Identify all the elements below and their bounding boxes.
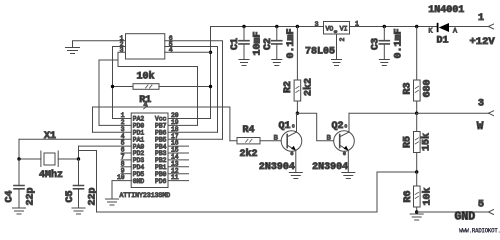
svg-text:1N4001: 1N4001 bbox=[428, 5, 464, 16]
wire U1 pin11 stub bbox=[168, 180, 189, 182]
ground (R6) bbox=[410, 214, 423, 220]
svg-text:PD6: PD6 bbox=[155, 178, 167, 185]
wire U1 pin17 bbox=[168, 138, 223, 140]
wire U1 pin14 stub bbox=[168, 159, 189, 161]
svg-text:1: 1 bbox=[355, 21, 359, 28]
wire J1 pin4 bbox=[165, 51, 211, 53]
svg-text:c: c bbox=[292, 124, 295, 130]
wire U2 pin2 to ground bbox=[336, 34, 338, 59]
wire top 5V rail bbox=[211, 27, 489, 119]
svg-text:GND: GND bbox=[133, 178, 145, 185]
svg-text:R2: R2 bbox=[283, 81, 294, 93]
wire J1 pin3 to U1 PB7 bbox=[118, 67, 198, 126]
svg-text:78L05: 78L05 bbox=[305, 47, 335, 58]
capacitor C1 10mF bbox=[239, 27, 249, 60]
wire U1 pin8 stub bbox=[121, 166, 131, 168]
svg-text:Q1: Q1 bbox=[278, 121, 290, 132]
svg-text:VI: VI bbox=[340, 26, 348, 33]
ground (C3) bbox=[379, 60, 389, 66]
node R2/Q1 collector junction bbox=[296, 112, 299, 115]
svg-text:10k: 10k bbox=[422, 187, 434, 205]
wire U1 pin9 stub bbox=[121, 173, 131, 175]
pin numbers U1 left bbox=[117, 112, 125, 181]
wire U1 pin15 stub bbox=[168, 152, 189, 154]
wire U1 pin12 stub bbox=[168, 173, 189, 175]
net label 4 bbox=[143, 102, 147, 110]
svg-text:22p: 22p bbox=[26, 187, 37, 205]
wire U1 pin3 stub bbox=[93, 131, 132, 133]
ground (C2) bbox=[272, 60, 282, 66]
svg-text:G: G bbox=[333, 30, 339, 33]
wire U1 pin4 to crystal left bbox=[19, 138, 131, 140]
wire U1 pin18 bbox=[168, 131, 218, 133]
wire U1 pin19 bbox=[168, 124, 198, 126]
svg-text:WWW.RADIOKOT.RU: WWW.RADIOKOT.RU bbox=[459, 228, 500, 235]
svg-text:R6: R6 bbox=[403, 190, 414, 202]
wire U1 pin5 to crystal right bbox=[79, 145, 132, 147]
diode D1 1N4001 bbox=[437, 23, 449, 32]
ground (Q2 emitter) bbox=[342, 173, 355, 179]
resistor R6 10k bbox=[414, 172, 421, 212]
svg-text:C2: C2 bbox=[263, 38, 274, 50]
svg-text:C3: C3 bbox=[371, 38, 382, 50]
svg-text:1: 1 bbox=[478, 13, 484, 24]
svg-text:B: B bbox=[327, 135, 331, 142]
IC U1 ATTINY2313SMD bbox=[131, 113, 168, 188]
wire J1 pin6 to U1 PB5 bbox=[165, 41, 223, 140]
svg-text:3: 3 bbox=[315, 21, 319, 28]
ground (U2) bbox=[332, 60, 342, 66]
svg-text:R3: R3 bbox=[403, 82, 414, 94]
svg-text:3: 3 bbox=[478, 99, 484, 110]
svg-text:e: e bbox=[343, 151, 346, 157]
svg-text:R5: R5 bbox=[403, 136, 414, 148]
svg-text:C4: C4 bbox=[5, 190, 16, 202]
resistor R5 15k bbox=[414, 113, 421, 172]
svg-text:2: 2 bbox=[339, 38, 346, 42]
wire J1 pin1 to ground bbox=[73, 41, 126, 47]
node R6 bottom junction bbox=[415, 210, 418, 213]
capacitor C5 22p bbox=[74, 159, 84, 208]
svg-text:c: c bbox=[345, 124, 348, 130]
capacitor C2 0.1mF bbox=[272, 27, 282, 60]
pin numbers U1 right bbox=[171, 112, 179, 181]
svg-text:W: W bbox=[477, 121, 484, 133]
node C3 junction bbox=[383, 25, 386, 28]
node C1 junction bbox=[242, 25, 245, 28]
svg-text:D1: D1 bbox=[436, 36, 448, 47]
svg-text:2k2: 2k2 bbox=[303, 78, 315, 96]
wire U1 pin10 to ground bbox=[112, 181, 131, 198]
svg-text:15k: 15k bbox=[421, 133, 433, 151]
wire sensor bottom long run bbox=[79, 151, 417, 213]
node R1 left junction bbox=[111, 85, 114, 88]
node connector pin4 junction bbox=[209, 51, 212, 54]
svg-text:ATTINY2313SMD: ATTINY2313SMD bbox=[120, 192, 171, 199]
resistor R1 10k bbox=[113, 84, 211, 90]
wire U1 pin1 stub bbox=[113, 118, 132, 120]
wire U1 pin13 stub bbox=[168, 166, 189, 168]
svg-text:4Mhz: 4Mhz bbox=[39, 169, 63, 181]
wire crystal right up bbox=[78, 146, 80, 159]
wire U1 pin2 stub bbox=[99, 124, 131, 126]
connector arrow 3 (W) bbox=[489, 111, 494, 116]
resistor R2 2k2 bbox=[294, 27, 301, 114]
ground (Q1 emitter) bbox=[289, 173, 302, 179]
svg-text:680: 680 bbox=[423, 79, 434, 97]
svg-text:10mF: 10mF bbox=[253, 31, 264, 55]
wire J1 pin2 down to U1 pin1 bbox=[113, 47, 126, 119]
svg-text:C5: C5 bbox=[65, 190, 76, 202]
connector arrow 5 (GND) bbox=[489, 210, 494, 215]
ground (C5) bbox=[72, 208, 85, 214]
node R2 junction bbox=[296, 25, 299, 28]
node C2 junction bbox=[275, 25, 278, 28]
voltage regulator U2 78L05 bbox=[324, 22, 350, 35]
svg-text:10: 10 bbox=[117, 174, 125, 181]
wire J1 pin5 to U1 PB6 bbox=[165, 47, 218, 133]
wire Q2 collector to node 3 bbox=[349, 112, 417, 114]
node R5/R6 junction bbox=[415, 170, 418, 173]
wire U1 pin6 stub bbox=[121, 152, 131, 154]
capacitor C4 22p bbox=[14, 159, 24, 208]
svg-text:K: K bbox=[429, 29, 433, 35]
wire node 5 to connector bbox=[417, 211, 489, 213]
svg-text:R4: R4 bbox=[242, 125, 254, 136]
connector arrow 1 (+12V) bbox=[489, 24, 494, 29]
transistor Q1 2N3904 bbox=[281, 113, 302, 172]
resistor R3 680 bbox=[414, 27, 421, 114]
wire U1 pin16 stub bbox=[168, 145, 189, 147]
capacitor C3 0.1mF bbox=[379, 27, 389, 60]
ground (C1) bbox=[239, 60, 249, 66]
node crystal left junction bbox=[17, 157, 20, 160]
wire node 3 to connector bbox=[417, 112, 489, 114]
wire R2 junction to Q2 base bbox=[297, 113, 339, 141]
svg-text:2k2: 2k2 bbox=[239, 148, 257, 160]
node R1 right junction bbox=[209, 85, 212, 88]
svg-text:+12V: +12V bbox=[470, 36, 496, 48]
svg-text:GND: GND bbox=[455, 211, 476, 224]
wire crystal left up bbox=[18, 139, 20, 159]
svg-text:e: e bbox=[291, 151, 294, 157]
node R3 junction bbox=[415, 25, 418, 28]
svg-text:Q2: Q2 bbox=[331, 121, 343, 132]
ground (U1 GND) bbox=[106, 199, 119, 205]
svg-text:B: B bbox=[274, 135, 278, 142]
svg-text:2N3904: 2N3904 bbox=[259, 162, 295, 173]
ground (J1 pin1) bbox=[66, 48, 80, 54]
wire net 4 (PD1 to R4) bbox=[93, 107, 230, 141]
svg-text:A: A bbox=[453, 29, 457, 35]
svg-text:C1: C1 bbox=[230, 38, 241, 50]
wire U1 pin7 stub bbox=[121, 159, 131, 161]
wire J1 pin3 jog bbox=[99, 52, 126, 125]
transistor Q2 2N3904 bbox=[334, 113, 355, 172]
resistor R4 2k2 bbox=[230, 138, 287, 144]
crystal X1 bbox=[19, 151, 79, 167]
svg-text:0.1mF: 0.1mF bbox=[286, 28, 297, 58]
svg-text:X1: X1 bbox=[44, 131, 56, 142]
svg-text:2N3904: 2N3904 bbox=[312, 162, 348, 173]
node crystal right junction bbox=[77, 157, 80, 160]
ground (C4) bbox=[13, 208, 26, 214]
node R3/R5 W junction bbox=[415, 112, 418, 115]
svg-text:0.1mF: 0.1mF bbox=[394, 28, 405, 58]
svg-text:10k: 10k bbox=[136, 71, 154, 83]
svg-text:VO: VO bbox=[326, 26, 334, 33]
wire U1 pin20 Vcc bbox=[168, 118, 211, 120]
connector J1 (ISP header) bbox=[126, 34, 165, 59]
svg-text:5: 5 bbox=[478, 200, 484, 211]
